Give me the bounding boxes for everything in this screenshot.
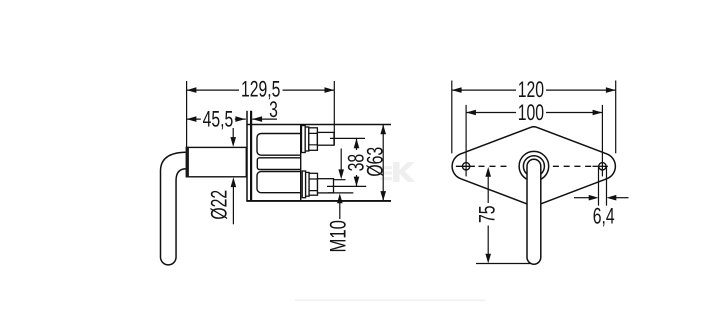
- shaft end face (thick): [186, 147, 189, 178]
- 6,4 right arrow: [615, 197, 629, 199]
- bottom stud top edge extension: [334, 179, 346, 181]
- arrowhead 129,5 right: [325, 87, 335, 93]
- Ø22 lower arrow: [232, 184, 234, 224]
- flange plate right line: [250, 111, 252, 201]
- bottom terminal nut: [309, 173, 317, 195]
- internal cylinder bottom: [257, 172, 301, 193]
- arrowhead 45,5 left: [187, 116, 197, 122]
- top stud centerline extension (38 dim): [330, 137, 365, 139]
- arrowhead 100 left: [466, 110, 476, 116]
- internal cylinder top: [257, 134, 301, 156]
- arrowhead 38 bottom: [354, 177, 360, 187]
- bottom nut facet lines: [309, 179, 317, 191]
- internal middle bar: [257, 158, 300, 170]
- 6,4 hole edge extension lines: [599, 166, 607, 205]
- top nut facet lines: [309, 133, 318, 144]
- arrowhead Ø63 bottom: [380, 191, 386, 201]
- arrowhead Ø63 top: [380, 125, 386, 135]
- top terminal stud M10: [317, 132, 334, 145]
- dimension line 129,5: [187, 89, 335, 91]
- arrowhead 45,5 right: [235, 116, 245, 122]
- flange diamond outline: [452, 127, 615, 206]
- watermark stripes: [376, 166, 392, 180]
- bottom stud bottom edge extension: [328, 192, 354, 194]
- dimension line 120: [452, 89, 616, 91]
- M10 upper leader arrow: [340, 149, 342, 171]
- svg-text:100: 100: [518, 100, 544, 125]
- label 120: [516, 81, 546, 99]
- dimension line 100: [466, 112, 602, 114]
- label 129,5: [239, 80, 283, 99]
- dashed centerline left-mid: [479, 165, 509, 167]
- svg-text:75: 75: [474, 205, 499, 223]
- Ø22 upper arrow: [232, 120, 234, 140]
- 75 bottom extension line: [476, 263, 530, 265]
- centre boss middle circle: [523, 156, 544, 177]
- svg-text:3: 3: [269, 97, 278, 122]
- watermark K letter: [393, 162, 415, 182]
- mounting hole left: [462, 163, 469, 170]
- svg-text:Ø22: Ø22: [206, 190, 231, 220]
- flange plate edge-on (3mm) left line: [246, 111, 248, 201]
- arrowhead 100 right: [593, 110, 603, 116]
- centerline tick through left hole: [456, 165, 475, 167]
- svg-text:M10: M10: [326, 220, 351, 252]
- arrowhead 75 top: [485, 167, 491, 177]
- centre boss outer circle: [519, 151, 549, 181]
- arrowhead 3: [252, 116, 262, 122]
- top terminal washer 1: [302, 126, 306, 153]
- M10 lower leader arrow: [339, 202, 341, 219]
- svg-text:Ø63: Ø63: [362, 147, 387, 177]
- body bottom edge + Ø63 bottom extension: [246, 200, 391, 202]
- shaft Ø22 cylinder: [187, 147, 247, 176]
- extension line 120 right: [615, 81, 617, 154]
- extension line right (129.5): [333, 81, 335, 145]
- centerline tick through right hole: [593, 165, 608, 167]
- body top edge + Ø63 top extension: [247, 124, 391, 126]
- arrowhead 75 bottom: [485, 254, 491, 264]
- arrowhead 129,5 left: [187, 87, 197, 93]
- body right edge: [300, 125, 302, 201]
- bottom terminal stud M10: [318, 179, 334, 193]
- mounting hole right: [599, 163, 606, 170]
- label 45,5: [201, 110, 235, 128]
- dimension Ø63 line: [382, 125, 384, 201]
- dimension 3 leader line: [252, 118, 277, 120]
- lever rod front view: [527, 159, 541, 264]
- 6,4 left arrow: [574, 197, 590, 199]
- extension line left (129.5 / 45.5): [186, 81, 188, 147]
- arrowhead 120 left: [452, 87, 462, 93]
- extension line 100 left / hole centre tick: [465, 105, 467, 176]
- dashed centerline mid-right: [553, 165, 592, 167]
- extension line 120 left: [451, 81, 453, 154]
- dimension 75 line segments: [487, 174, 489, 256]
- top terminal washer 2: [305, 127, 309, 151]
- svg-text:6,4: 6,4: [593, 203, 615, 228]
- arrowhead 38 top: [354, 138, 360, 148]
- top terminal nut: [309, 128, 318, 151]
- bottom terminal washer 2: [306, 172, 310, 196]
- dimension line 45,5: [187, 118, 246, 120]
- lever handle: [161, 152, 186, 265]
- svg-text:120: 120: [518, 77, 544, 102]
- arrowhead 120 right: [606, 87, 616, 93]
- label 100: [516, 104, 546, 122]
- bottom stud centerline extension (38 dim): [327, 185, 366, 187]
- dimension 38 line segments: [356, 138, 358, 186]
- bottom terminal washer 1: [302, 171, 305, 198]
- svg-text:45,5: 45,5: [203, 107, 234, 132]
- watermark smudge bottom: [295, 300, 485, 302]
- extension line 100 right / hole centre tick: [601, 105, 603, 176]
